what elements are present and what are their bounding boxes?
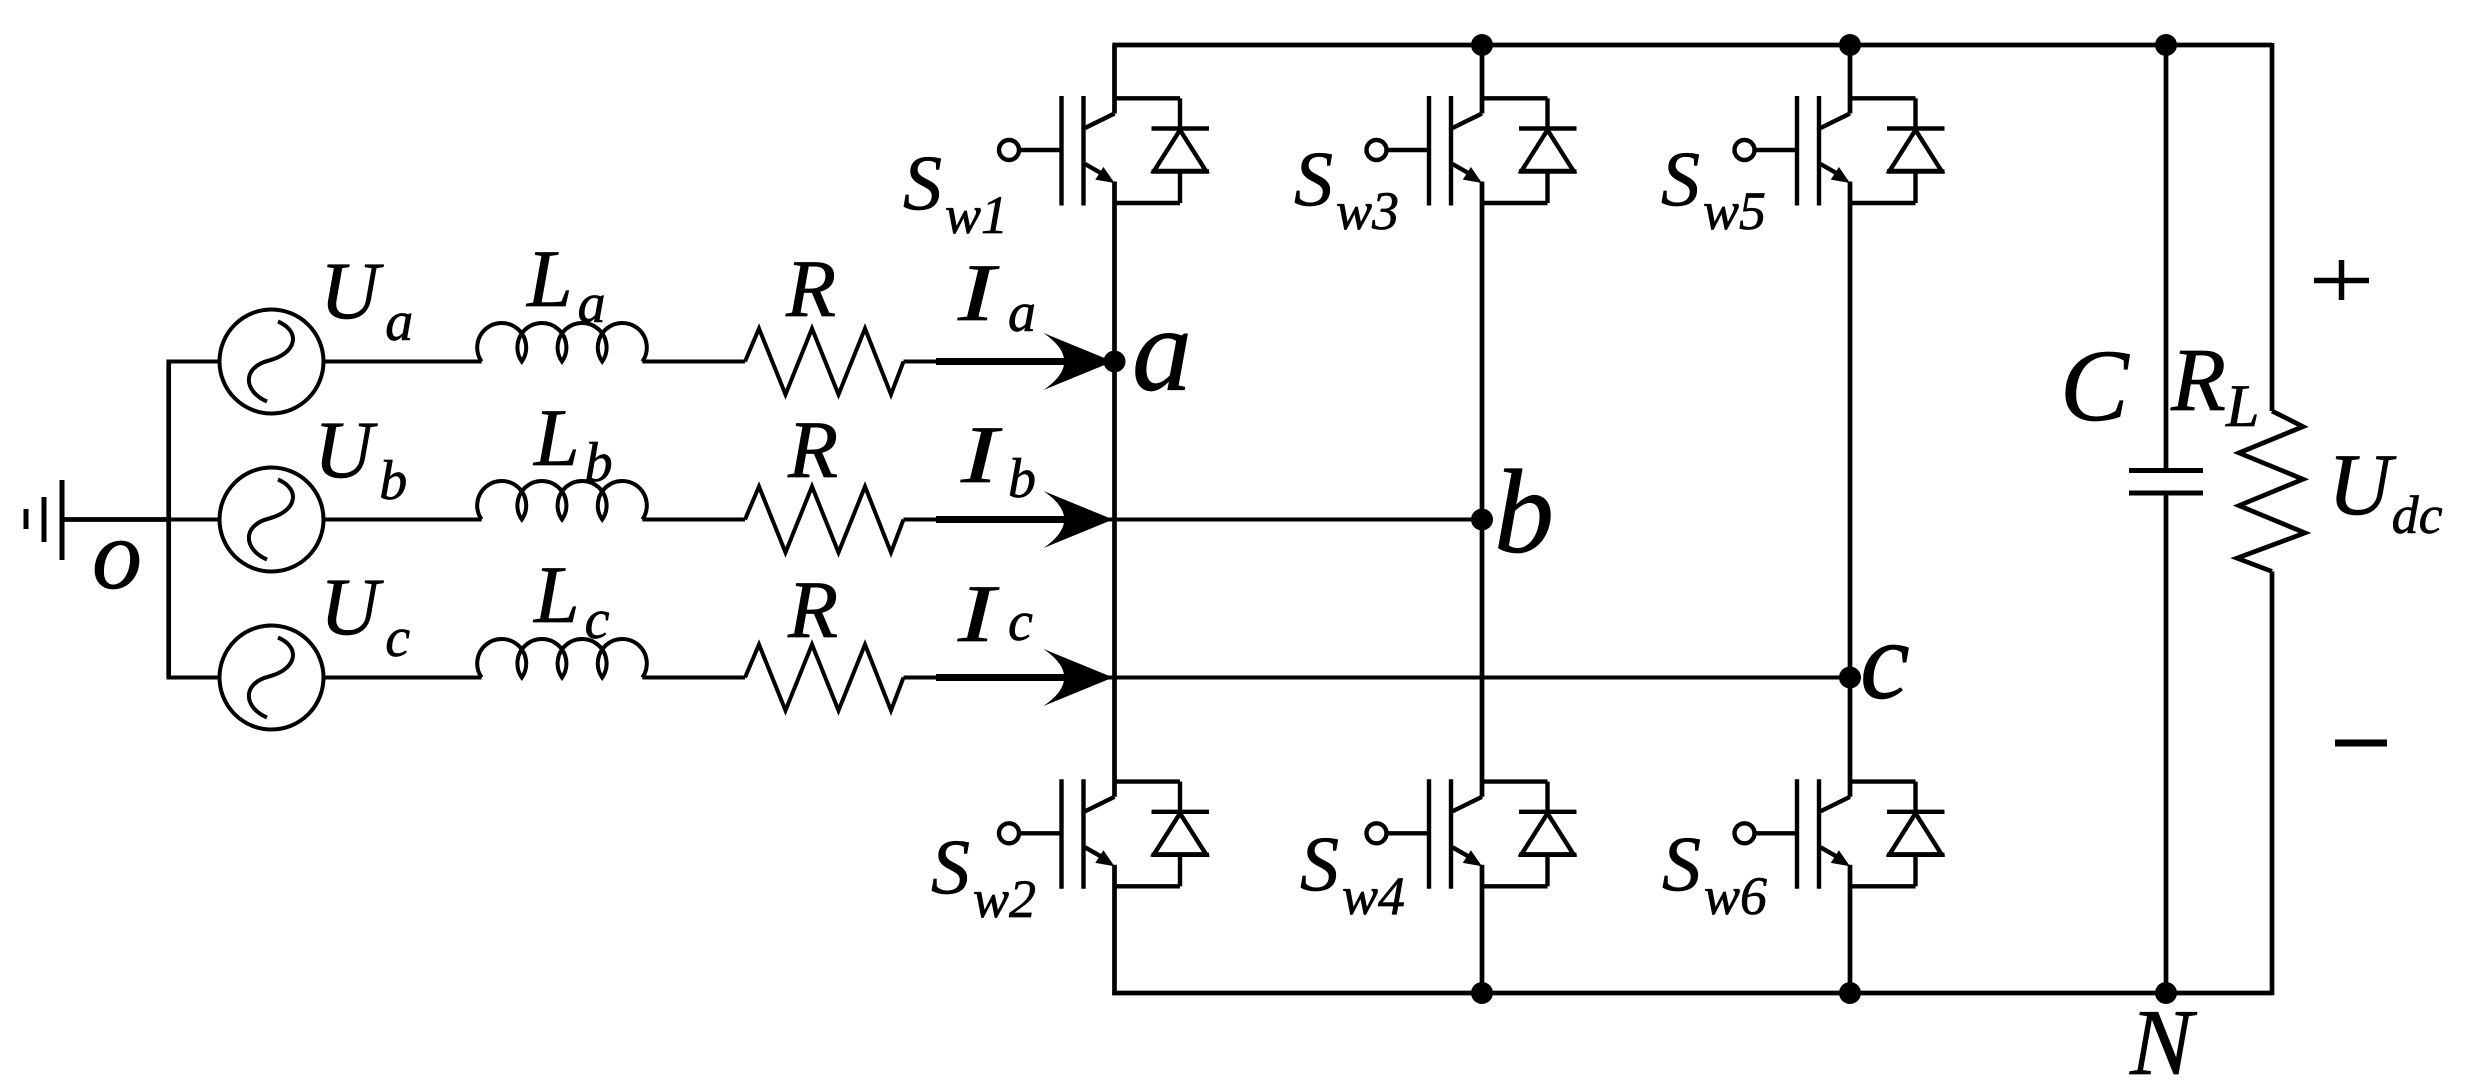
wire: leg b top (rail to Sw3) (1480, 45, 1485, 114)
wire: resistor R to node b (904, 518, 1483, 522)
resistor R (phase a) (745, 329, 904, 395)
svg-text:R: R (787, 564, 838, 655)
wire: leg a bottom (Sw2 emitter to bottom rail) (1112, 865, 1117, 995)
svg-text:a: a (1008, 282, 1036, 344)
wire: ground to bus (node o) (62, 517, 169, 522)
wire: resistor R to node a (904, 360, 1115, 364)
wire: leg c bottom (Sw6 emitter to bottom rail) (1848, 865, 1853, 993)
svg-text:I: I (960, 410, 1003, 501)
inductor La (477, 323, 647, 362)
wire: inductor Lb to resistor R (642, 518, 745, 522)
AC source Ua (220, 310, 324, 414)
AC source Ub (220, 468, 324, 572)
node: bottom rail / leg c (1839, 982, 1861, 1004)
wire: bottom DC rail (1112, 991, 2272, 996)
svg-text:a: a (1132, 283, 1192, 416)
phase b branch (167, 518, 1483, 522)
svg-text:C: C (2060, 329, 2130, 443)
svg-text:R: R (787, 404, 838, 495)
svg-text:b: b (1494, 445, 1554, 578)
node: top rail / leg b (1471, 34, 1493, 56)
transistor Sw6 with antiparallel diode (1735, 779, 1945, 889)
inductor Lc (477, 639, 647, 678)
transistor Sw2 with antiparallel diode (999, 779, 1209, 889)
node: top rail / leg c (1839, 34, 1861, 56)
current arrow Ib (936, 491, 1113, 548)
wire: bus to source Ub (167, 518, 220, 522)
current arrow Ic (936, 649, 1113, 706)
current arrow Ia (936, 333, 1113, 390)
wire: leg a (Sw1 emitter to node a) (1112, 182, 1117, 362)
wire: source Ub to inductor Lb (324, 518, 482, 522)
transistor Sw5 with antiparallel diode (1735, 96, 1945, 206)
wire: bus to source Uc (167, 676, 220, 680)
wire: resistor R to node c (904, 676, 1851, 680)
wire: leg c (Sw5 emitter to node c) (1848, 182, 1853, 678)
resistor R (phase c) (745, 645, 904, 711)
phase c branch (167, 676, 1851, 680)
wire: leg a top (rail to Sw1) (1112, 45, 1117, 114)
wire: inductor Lc to resistor R (642, 676, 745, 680)
node: top rail / capacitor branch (2155, 34, 2177, 56)
wire: right edge upper segment (2270, 43, 2275, 411)
svg-text:b: b (1008, 448, 1036, 510)
wire: leg b bottom (Sw4 emitter to bottom rail) (1480, 865, 1485, 993)
wire: leg b (node b to Sw4) (1480, 520, 1485, 797)
wire: source Uc to inductor Lc (324, 676, 482, 680)
capacitor C plates (2129, 468, 2203, 473)
svg-text:c: c (1008, 591, 1033, 653)
node N: bottom rail / capacitor branch (2155, 982, 2177, 1004)
svg-text:R: R (785, 243, 836, 334)
node b (1471, 509, 1493, 531)
wire: leg c top (rail to Sw5) (1848, 45, 1853, 114)
resistor RL zigzag (2237, 411, 2305, 571)
wire: leg c (node c to Sw6) (1848, 678, 1853, 797)
node a (1104, 351, 1126, 373)
plus sign (2314, 260, 2369, 300)
minus sign (2335, 740, 2387, 747)
wire: leg b (Sw3 emitter to node b) (1480, 182, 1485, 520)
inductor Lb (477, 481, 647, 520)
transistor Sw3 with antiparallel diode (1367, 96, 1577, 206)
node c (1839, 667, 1861, 689)
wire: right edge lower segment (2270, 571, 2275, 995)
AC source Uc (220, 626, 324, 730)
svg-text:I: I (957, 569, 1000, 660)
wire: bus to source Ua (167, 360, 220, 364)
wire: inductor La to resistor R (642, 360, 745, 364)
wire: leg a (node a to Sw2) (1112, 362, 1117, 797)
transistor Sw1 with antiparallel diode (999, 96, 1209, 206)
svg-text:I: I (957, 248, 1000, 339)
wire: source Ua to inductor La (324, 360, 482, 364)
svg-text:o: o (92, 499, 142, 610)
svg-text:c: c (1860, 599, 1910, 723)
node: bottom rail / leg b (1471, 982, 1493, 1004)
resistor R (phase b) (745, 487, 904, 553)
transistor Sw4 with antiparallel diode (1367, 779, 1577, 889)
wire: capacitor branch upper (2164, 45, 2169, 471)
phase a branch (167, 360, 1115, 364)
ground (26, 480, 62, 560)
svg-text:N: N (2129, 991, 2198, 1087)
wire: capacitor branch lower (2164, 493, 2169, 993)
wire: neutral bus vertical (166, 362, 171, 678)
wire: top DC rail (1112, 43, 2272, 48)
